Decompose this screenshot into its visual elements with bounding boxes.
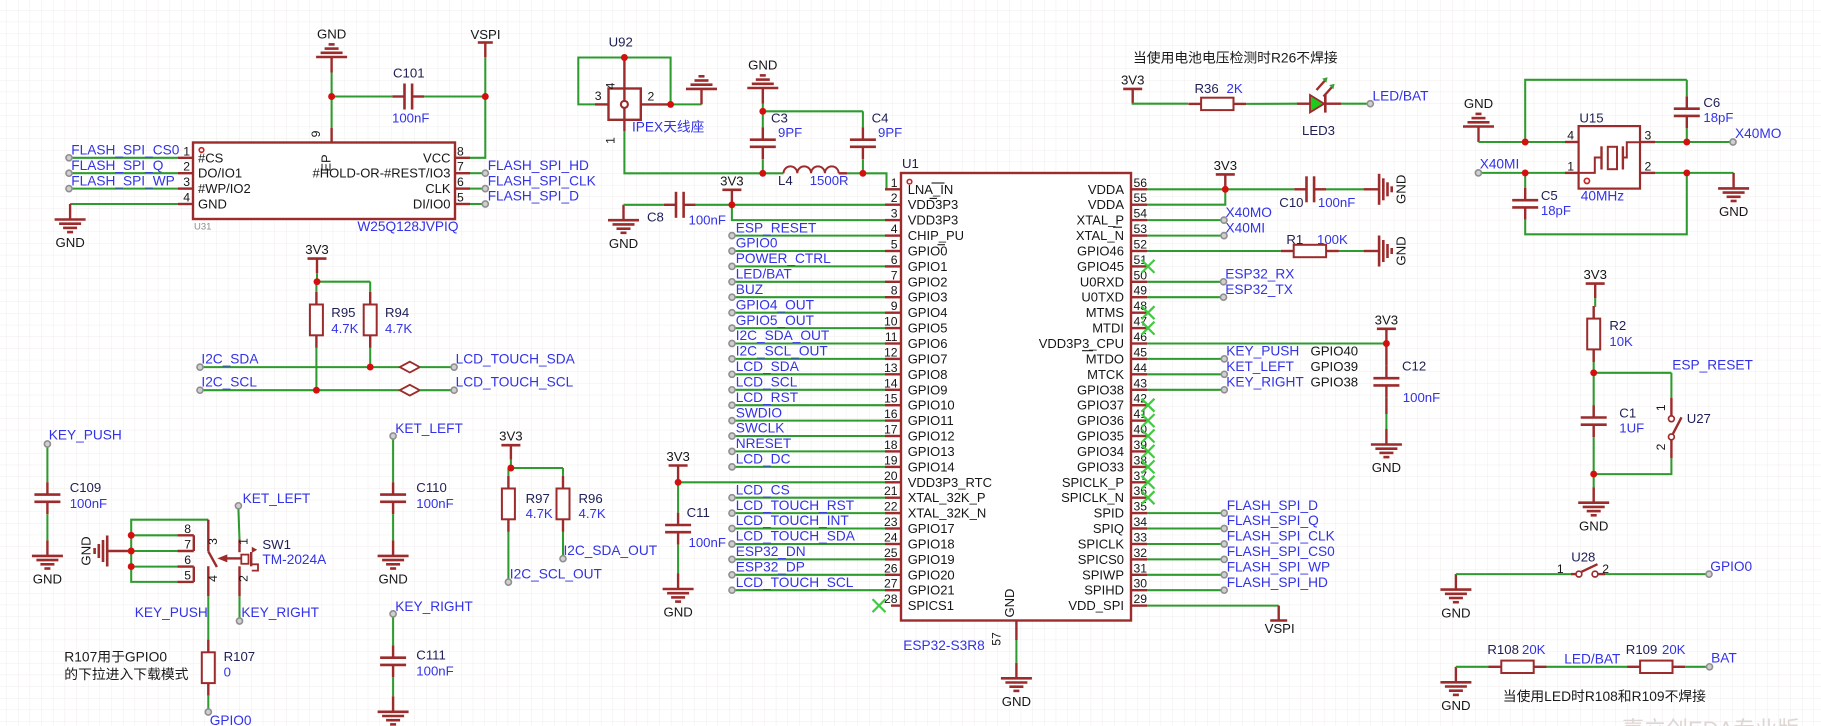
wire (732, 389, 885, 391)
svg-text:GND: GND (1002, 589, 1017, 618)
wire (1147, 558, 1224, 560)
svg-text:3V3: 3V3 (1583, 267, 1606, 282)
wire (331, 73, 333, 97)
switch U27 (1654, 398, 1682, 458)
junction (328, 93, 335, 100)
wire (392, 617, 394, 645)
no-connect mark (1142, 399, 1155, 412)
ground (1578, 487, 1609, 533)
svg-text:GPIO4_OUT: GPIO4_OUT (736, 297, 815, 312)
net port dot (729, 464, 735, 470)
svg-text:GND: GND (1441, 698, 1470, 713)
wire (238, 509, 239, 540)
U1 pin 5 (GPIO0) (885, 238, 947, 259)
svg-text:18pF: 18pF (1703, 110, 1733, 125)
U1 pin 42 (GPIO37) (1077, 392, 1147, 413)
svg-text:LCD_TOUCH_SCL: LCD_TOUCH_SCL (736, 575, 854, 590)
svg-text:GND: GND (317, 27, 346, 42)
svg-text:20K: 20K (1522, 642, 1546, 657)
wire (369, 348, 371, 367)
junction (667, 101, 674, 108)
resistor R97 (502, 476, 515, 532)
svg-text:SW1: SW1 (262, 537, 291, 552)
svg-text:U0RXD: U0RXD (1080, 274, 1124, 289)
svg-text:U1: U1 (902, 156, 919, 171)
svg-text:MTDI: MTDI (1092, 321, 1124, 336)
svg-text:I2C_SDA_OUT: I2C_SDA_OUT (564, 543, 658, 558)
power flag 3V3 (1214, 158, 1237, 189)
wire (732, 296, 885, 298)
wire (678, 481, 885, 483)
svg-text:KEY_PUSH: KEY_PUSH (1226, 344, 1299, 359)
svg-text:NRESET: NRESET (736, 436, 792, 451)
wire (131, 520, 208, 582)
net port dot (729, 510, 735, 516)
net port dot (729, 387, 735, 393)
wire (624, 131, 762, 173)
capacitor C110 (380, 482, 406, 514)
U1 pin 16 (GPIO11) (884, 407, 954, 428)
svg-text:GPIO0: GPIO0 (736, 236, 778, 251)
svg-text:6: 6 (184, 553, 191, 567)
wire (762, 104, 764, 112)
svg-text:43: 43 (1134, 376, 1148, 390)
wire (732, 265, 885, 267)
svg-text:32: 32 (1134, 546, 1148, 560)
wire (69, 157, 178, 159)
net port dot (66, 170, 72, 176)
svg-text:54: 54 (1134, 207, 1148, 221)
power flag 3V3 (1375, 312, 1398, 343)
wire (1547, 666, 1628, 668)
wire (677, 480, 679, 482)
svg-text:GPIO6: GPIO6 (908, 336, 948, 351)
svg-text:POWER_CTRL: POWER_CTRL (736, 251, 831, 266)
svg-text:29: 29 (1134, 592, 1148, 606)
svg-text:3: 3 (891, 207, 898, 221)
svg-text:R107用于GPIO0: R107用于GPIO0 (64, 650, 167, 665)
svg-text:C12: C12 (1402, 359, 1426, 374)
net port dot (1220, 294, 1226, 300)
resistor R96 (557, 476, 570, 532)
svg-text:TM-2024A: TM-2024A (262, 552, 327, 567)
wire (671, 103, 702, 105)
net port dot (729, 402, 735, 408)
svg-text:11: 11 (885, 330, 898, 344)
net tie diamond (400, 385, 420, 396)
wire (1147, 296, 1224, 298)
no-connect mark (1142, 322, 1155, 335)
svg-text:DO/IO1: DO/IO1 (198, 166, 242, 181)
svg-text:100nF: 100nF (70, 496, 107, 511)
svg-text:GPIO38: GPIO38 (1311, 375, 1359, 390)
no-connect mark (1142, 491, 1155, 504)
wire (70, 203, 178, 205)
net port dot (729, 525, 735, 531)
wire (69, 172, 178, 174)
ground (686, 76, 717, 104)
wire (316, 273, 318, 282)
svg-text:VDD3P3_RTC: VDD3P3_RTC (908, 475, 992, 490)
svg-text:GPIO19: GPIO19 (908, 552, 955, 567)
wire (1593, 437, 1595, 474)
svg-text:GND: GND (79, 536, 94, 565)
svg-text:GPIO17: GPIO17 (908, 521, 955, 536)
junction (128, 532, 135, 539)
svg-text:GND: GND (1441, 605, 1470, 620)
wire (1147, 250, 1281, 252)
wire (1147, 527, 1224, 529)
wire (1686, 80, 1688, 97)
svg-text:14: 14 (884, 376, 898, 390)
net port dot (729, 448, 735, 454)
svg-text:100nF: 100nF (1318, 195, 1355, 210)
power flag 3V3 (666, 449, 689, 480)
wire (732, 204, 885, 206)
svg-text:FLASH_SPI_WP: FLASH_SPI_WP (1227, 560, 1330, 575)
svg-text:GPIO14: GPIO14 (908, 459, 955, 474)
svg-text:R97: R97 (526, 491, 550, 506)
wire (1594, 372, 1672, 374)
U1 pin 46 (VDD3P3_CPU) (1039, 330, 1148, 351)
svg-text:FLASH_SPI_D: FLASH_SPI_D (488, 189, 579, 204)
svg-text:3V3: 3V3 (666, 449, 689, 464)
svg-text:100nF: 100nF (1403, 390, 1440, 405)
wire (510, 460, 512, 468)
wire (732, 235, 885, 237)
U1 pin 50 (U0RXD) (1080, 268, 1147, 289)
ground (378, 696, 409, 724)
svg-text:9: 9 (309, 130, 323, 137)
svg-text:FLASH_SPI_HD: FLASH_SPI_HD (1227, 575, 1328, 590)
U1 pin 28 (SPICS1) (884, 592, 954, 613)
svg-text:ESP_RESET: ESP_RESET (1672, 357, 1753, 372)
svg-text:XTAL_N: XTAL_N (1076, 228, 1124, 243)
svg-text:34: 34 (1134, 515, 1148, 529)
U1 pin 20 (VDD3P3_RTC) (884, 469, 992, 490)
svg-text:LCD_TOUCH_SDA: LCD_TOUCH_SDA (736, 529, 856, 544)
svg-text:8: 8 (457, 144, 464, 158)
wire (200, 389, 400, 391)
svg-text:GPIO39: GPIO39 (1311, 359, 1359, 374)
svg-text:GPIO33: GPIO33 (1077, 459, 1124, 474)
svg-text:10K: 10K (1609, 334, 1633, 349)
svg-text:ESP32_DP: ESP32_DP (736, 560, 805, 575)
svg-text:R109: R109 (1626, 642, 1658, 657)
svg-text:XTAL_P: XTAL_P (1077, 213, 1124, 228)
svg-text:C4: C4 (872, 111, 889, 126)
wire (1147, 605, 1279, 607)
svg-text:U28: U28 (1571, 550, 1595, 565)
svg-text:1UF: 1UF (1619, 421, 1644, 436)
wire (732, 512, 885, 514)
wire (732, 327, 885, 329)
svg-text:X40MO: X40MO (1735, 126, 1781, 141)
wire (732, 589, 885, 591)
ground (55, 204, 86, 250)
U1 pin 25 (GPIO19) (884, 546, 955, 567)
ground (1364, 174, 1409, 205)
svg-text:GND: GND (198, 197, 227, 212)
svg-text:9PF: 9PF (878, 125, 902, 140)
IC U1 ESP32-S3R8 (901, 173, 1131, 621)
svg-text:4.7K: 4.7K (331, 321, 358, 336)
wire (1015, 640, 1017, 663)
svg-text:L4: L4 (778, 173, 793, 188)
capacitor C12 (1373, 366, 1399, 398)
svg-text:LED3: LED3 (1302, 123, 1335, 138)
svg-text:VDDA: VDDA (1088, 182, 1124, 197)
svg-text:3V3: 3V3 (1121, 72, 1144, 87)
wire (1685, 666, 1709, 668)
power flag VSPI (470, 27, 500, 57)
svg-text:1: 1 (1654, 404, 1668, 411)
svg-text:4: 4 (183, 191, 190, 205)
svg-text:LED/BAT: LED/BAT (736, 267, 793, 282)
wire (863, 173, 901, 189)
wire (1147, 189, 1225, 204)
U1 pin 39 (GPIO34) (1077, 438, 1147, 459)
net port dot (729, 340, 735, 346)
wire (1687, 141, 1733, 143)
svg-text:GPIO0: GPIO0 (210, 713, 252, 726)
wire (420, 366, 454, 368)
net tie diamond (400, 362, 420, 373)
crystal U15 40MHz (1565, 126, 1655, 189)
svg-text:KEY_PUSH: KEY_PUSH (49, 428, 122, 443)
wire (369, 282, 371, 292)
svg-text:KET_LEFT: KET_LEFT (243, 491, 311, 506)
wire (207, 696, 209, 712)
wire (1525, 173, 1687, 234)
ground (663, 574, 694, 620)
svg-text:C6: C6 (1703, 95, 1720, 110)
svg-text:GND: GND (378, 572, 407, 587)
U1 pin 31 (SPIWP) (1082, 561, 1147, 582)
wire (578, 58, 624, 105)
svg-text:BUZ: BUZ (736, 282, 763, 297)
svg-text:MTMS: MTMS (1086, 305, 1125, 320)
U1 pin 48 (MTMS) (1086, 299, 1148, 320)
svg-text:1: 1 (183, 144, 190, 158)
capacitor C10 (1294, 176, 1326, 202)
svg-text:GND: GND (1719, 204, 1748, 219)
wire (238, 596, 240, 618)
svg-text:18: 18 (884, 438, 898, 452)
wire (1593, 373, 1595, 405)
svg-text:SPIQ: SPIQ (1093, 521, 1124, 536)
wire (677, 545, 679, 574)
svg-text:40MHz: 40MHz (1581, 189, 1625, 204)
U1 pin 13 (GPIO8) (884, 361, 948, 382)
no-connect mark (1142, 260, 1155, 273)
svg-text:KET_LEFT: KET_LEFT (395, 421, 463, 436)
svg-text:4.7K: 4.7K (385, 321, 412, 336)
wire (1341, 103, 1370, 105)
svg-text:ESP32_DN: ESP32_DN (736, 544, 806, 559)
wire (484, 57, 486, 97)
svg-text:16: 16 (884, 407, 898, 421)
overline marks (930, 183, 946, 245)
svg-text:24: 24 (884, 531, 898, 545)
svg-text:0: 0 (224, 665, 231, 680)
svg-text:8: 8 (184, 522, 191, 536)
net port dot (390, 611, 396, 617)
svg-text:19: 19 (884, 453, 898, 467)
svg-text:LCD_TOUCH_SCL: LCD_TOUCH_SCL (456, 375, 574, 390)
net port dot (729, 495, 735, 501)
svg-text:GND: GND (1464, 96, 1493, 111)
svg-text:R96: R96 (579, 491, 603, 506)
svg-text:I2C_SDA_OUT: I2C_SDA_OUT (736, 328, 830, 343)
junction (1590, 471, 1597, 478)
svg-text:SWDIO: SWDIO (736, 405, 782, 420)
svg-text:FLASH_SPI_CLK: FLASH_SPI_CLK (488, 173, 596, 188)
net port dot (482, 201, 488, 207)
wire (732, 466, 885, 468)
power flag 3V3 (305, 242, 328, 273)
U1 pin 53 (XTAL_N) (1076, 222, 1147, 243)
svg-text:LCD_TOUCH_SDA: LCD_TOUCH_SDA (456, 351, 576, 366)
svg-text:VDD3P3: VDD3P3 (908, 197, 959, 212)
svg-text:2: 2 (1645, 159, 1652, 173)
net port dot (1221, 356, 1227, 362)
no-connect mark (1142, 414, 1155, 427)
wire (1147, 389, 1224, 391)
wire (1147, 574, 1224, 576)
svg-text:GPIO7: GPIO7 (908, 351, 948, 366)
svg-text:SPICLK_N: SPICLK_N (1061, 490, 1124, 505)
wire (207, 596, 209, 640)
U31 pin 6 (CLK) (425, 175, 470, 196)
wire (862, 159, 864, 173)
svg-text:100nF: 100nF (689, 213, 726, 228)
net port dot (1221, 387, 1227, 393)
svg-text:GPIO5_OUT: GPIO5_OUT (736, 313, 815, 328)
svg-text:GPIO18: GPIO18 (908, 537, 955, 552)
net port dot (197, 364, 203, 370)
svg-text:7: 7 (184, 538, 191, 552)
svg-text:3: 3 (183, 175, 190, 189)
net port dot (729, 418, 735, 424)
resistor R107 (202, 640, 215, 696)
U1 pin 43 (GPIO38) (1077, 376, 1147, 397)
switch SW1 TM-2024A (177, 520, 258, 597)
svg-text:45: 45 (1134, 345, 1148, 359)
U1 pin 54 (XTAL_P) (1077, 207, 1148, 228)
svg-text:53: 53 (1134, 222, 1148, 236)
wire (1525, 80, 1687, 142)
wire (732, 342, 885, 344)
svg-text:I2C_SCL: I2C_SCL (201, 375, 257, 390)
svg-text:W25Q128JVPIQ: W25Q128JVPIQ (357, 219, 458, 234)
junction (1222, 186, 1229, 193)
svg-text:R108: R108 (1487, 642, 1519, 657)
svg-text:20: 20 (884, 469, 898, 483)
overline marks (1082, 227, 1122, 351)
svg-text:GND: GND (1002, 694, 1031, 709)
wire (763, 110, 863, 112)
svg-text:5: 5 (184, 568, 191, 582)
svg-text:GPIO21: GPIO21 (908, 583, 955, 598)
svg-text:FLASH_SPI_WP: FLASH_SPI_WP (71, 173, 174, 188)
svg-text:22: 22 (884, 500, 898, 514)
svg-text:2: 2 (183, 160, 190, 174)
wire (696, 204, 732, 206)
svg-text:GPIO0: GPIO0 (1710, 559, 1752, 574)
svg-text:12: 12 (884, 345, 898, 359)
wire (732, 205, 885, 220)
wire (1605, 573, 1709, 575)
U1 pin 4 (CHIP_PU) (885, 222, 964, 243)
capacitor C3 (750, 127, 776, 159)
wire (46, 447, 48, 482)
wire (1655, 172, 1687, 174)
svg-text:GPIO2: GPIO2 (908, 274, 948, 289)
U1 pin 45 (MTDO) (1086, 345, 1148, 366)
junction (128, 548, 135, 555)
junction (728, 201, 735, 208)
wire (1326, 188, 1363, 190)
svg-text:C111: C111 (416, 648, 446, 663)
wire (331, 97, 333, 129)
power flag 3V3 (1583, 267, 1606, 298)
svg-text:GPIO0: GPIO0 (908, 244, 948, 259)
capacitor C111 (380, 645, 406, 677)
svg-text:BAT: BAT (1711, 650, 1737, 665)
capacitor C5 (1512, 188, 1538, 220)
ground (1440, 667, 1471, 713)
ground (1440, 574, 1471, 620)
svg-text:1: 1 (1557, 562, 1564, 576)
svg-text:1: 1 (604, 137, 618, 144)
svg-text:GND: GND (1394, 236, 1409, 265)
U1 pin 36 (SPICLK_N) (1061, 484, 1147, 505)
ground (1371, 429, 1402, 475)
switch U28 (1557, 562, 1609, 577)
svg-text:100nF: 100nF (689, 535, 726, 550)
net port dot (236, 618, 242, 624)
svg-text:52: 52 (1134, 238, 1148, 252)
svg-text:GPIO38: GPIO38 (1077, 382, 1124, 397)
wire (470, 188, 485, 190)
U1 pin 12 (GPIO7) (884, 345, 948, 366)
svg-text:3V3: 3V3 (499, 429, 522, 444)
net port dot (729, 248, 735, 254)
U1 pin 55 (VDDA) (1088, 191, 1147, 212)
net port dot (560, 556, 566, 562)
U31 pin 2 (DO/IO1) (178, 160, 242, 181)
U1 pin 23 (GPIO17) (884, 515, 955, 536)
U1 pin 15 (GPIO10) (884, 392, 955, 413)
ground (1001, 663, 1032, 709)
svg-text:23: 23 (884, 515, 898, 529)
wire (469, 157, 471, 159)
svg-text:R94: R94 (385, 305, 409, 320)
svg-text:I2C_SCL_OUT: I2C_SCL_OUT (510, 566, 603, 581)
svg-text:GND: GND (1394, 175, 1409, 204)
junction (859, 170, 866, 177)
svg-text:当使用LED时R108和R109不焊接: 当使用LED时R108和R109不焊接 (1503, 688, 1706, 704)
U1 pin 37 (SPICLK_P) (1062, 469, 1147, 490)
svg-text:GPIO13: GPIO13 (908, 444, 955, 459)
svg-text:9: 9 (891, 299, 898, 313)
svg-text:U15: U15 (1579, 111, 1603, 126)
svg-text:SPIWP: SPIWP (1082, 567, 1124, 582)
wire (562, 468, 564, 476)
wire (862, 111, 864, 127)
svg-text:LCD_CS: LCD_CS (736, 482, 790, 497)
